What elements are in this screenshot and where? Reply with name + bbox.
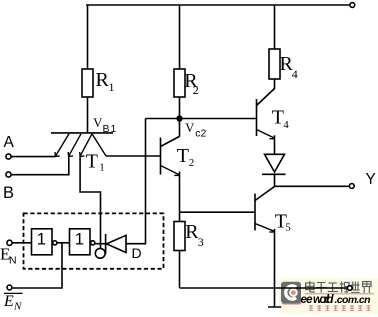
wire Vc2 down to diode anode — [127, 119, 146, 244]
label R4 — [280, 53, 298, 81]
node Vc2 dot — [177, 116, 182, 121]
watermark title underline — [305, 293, 374, 295]
diode D2 (level shift) — [265, 154, 285, 172]
transistor T4 collector — [257, 89, 275, 106]
resistor R4 — [269, 49, 280, 79]
svg-text:3: 3 — [198, 235, 204, 249]
wire gate2 to diode D cathode — [95, 243, 105, 245]
input terminal EN — [7, 240, 12, 245]
ground symbol — [268, 288, 281, 307]
wire VCC rail — [86, 4, 350, 6]
label gate1 1 — [37, 230, 46, 249]
wire input B — [11, 156, 69, 175]
label D — [132, 245, 142, 261]
svg-text:4: 4 — [292, 67, 298, 81]
label T1 — [86, 150, 105, 173]
transistor T1 multi-emitter: base bar — [51, 132, 113, 134]
wire ground rail — [180, 287, 348, 289]
resistor R3 — [174, 222, 185, 251]
svg-text:A: A — [4, 134, 15, 151]
svg-text:1: 1 — [109, 80, 115, 94]
transistor T4 emitter — [257, 130, 275, 138]
wire output Y — [275, 185, 350, 187]
transistor T5 base bar — [254, 194, 256, 231]
watermark red slogan (simulated) — [309, 305, 370, 311]
svg-text:Y: Y — [366, 171, 376, 188]
resistor R2 — [174, 69, 185, 97]
svg-text:T: T — [86, 150, 98, 172]
node circle P — [95, 248, 105, 258]
input terminal EN-bar — [7, 285, 12, 290]
label gate2 1 — [75, 230, 84, 249]
wire rail to R2 — [179, 5, 181, 69]
wire T5 emitter to ground — [274, 229, 276, 288]
label A — [4, 134, 15, 151]
transistor T5 emitter — [255, 224, 274, 232]
wire R1 to T1 base — [87, 97, 89, 132]
wire EN to gate1 — [12, 242, 31, 244]
label B — [3, 184, 14, 202]
label R1 — [96, 69, 115, 94]
wire Vc2 horizontal to T4 base — [146, 118, 257, 120]
dashed enable box — [24, 213, 164, 268]
label VB1 — [93, 116, 117, 135]
transistor T4 base bar — [256, 99, 258, 136]
svg-text:2: 2 — [193, 83, 199, 97]
svg-text:N: N — [9, 255, 17, 267]
terminal VCC — [350, 3, 355, 8]
transistor T2 emitter — [161, 166, 180, 175]
wire rail to R4 — [274, 5, 276, 49]
wire rail to R1 — [87, 5, 89, 69]
wire T2 collector to node Vc2 — [179, 119, 181, 137]
svg-text:D: D — [132, 245, 142, 261]
wire gate1 to gate2 — [57, 242, 70, 244]
terminal Y — [349, 184, 354, 189]
diode D — [107, 235, 127, 252]
svg-text:T: T — [272, 106, 284, 128]
svg-text:world: world — [313, 294, 334, 306]
label EN — [0, 245, 17, 267]
label T5 — [275, 210, 292, 233]
svg-text:.com.cn: .com.cn — [335, 294, 371, 306]
label T2 — [177, 145, 195, 169]
diode D2 cathode bar — [262, 173, 286, 175]
svg-text:B1: B1 — [103, 123, 118, 135]
transistor T2 base bar — [160, 138, 162, 175]
wire T1 collector to T2 base — [106, 155, 161, 157]
watermark eeworld.com.cn — [301, 294, 371, 306]
transistor T1 emitter 3 — [80, 134, 92, 156]
svg-text:1: 1 — [99, 162, 105, 174]
resistor R1 — [82, 69, 93, 97]
transistor T1 emitter 1 — [55, 134, 69, 156]
svg-text:c2: c2 — [195, 128, 206, 140]
buffer gate 2 — [70, 229, 91, 255]
wire diode to output node — [274, 174, 276, 186]
label vc2 — [185, 121, 206, 139]
gate1 output bubble — [53, 241, 57, 245]
transistor T1 emitter 2 — [69, 134, 81, 156]
label T4 — [272, 106, 290, 131]
wire input A — [11, 156, 55, 158]
label R2 — [184, 70, 199, 97]
input terminal B — [6, 172, 11, 177]
diode D cathode bar — [105, 234, 107, 254]
svg-text:N: N — [13, 301, 22, 313]
svg-text:1: 1 — [75, 230, 84, 249]
svg-text:V: V — [93, 116, 102, 130]
wire EN-bar to gates junction — [12, 243, 62, 288]
svg-text:4: 4 — [283, 119, 289, 131]
wire R2 to node Vc2 — [179, 97, 181, 119]
wire T1 emitter3 to enable node — [80, 156, 100, 248]
transistor T2 collector — [161, 137, 180, 147]
buffer gate 1 — [32, 229, 53, 255]
wire R3 to ground rail — [179, 251, 181, 289]
label Y — [366, 171, 376, 188]
input terminal A — [6, 154, 11, 159]
wire to T5 base — [180, 211, 256, 213]
label EN-bar — [3, 293, 22, 313]
transistor T5 collector — [255, 187, 275, 201]
svg-text:E: E — [3, 293, 14, 310]
transistor T1 collector — [92, 134, 106, 156]
terminal ground rail right — [348, 286, 353, 291]
svg-text:R: R — [96, 69, 110, 91]
gate2 output bubble — [91, 241, 95, 245]
svg-text:T: T — [177, 145, 189, 167]
svg-text:B: B — [3, 184, 14, 202]
svg-text:5: 5 — [285, 222, 291, 234]
svg-text:2: 2 — [189, 157, 195, 169]
wire R4 to T4 collector — [274, 79, 276, 89]
wire T4 emitter to diode — [274, 135, 276, 154]
watermark logo — [281, 282, 301, 305]
svg-text:V: V — [185, 121, 194, 135]
svg-text:1: 1 — [37, 230, 46, 249]
label R3 — [185, 221, 204, 249]
watermark background — [279, 278, 378, 313]
svg-text:ee: ee — [301, 294, 314, 306]
watermark title 电子工程世界 (simulated) — [306, 281, 371, 293]
wire T2 emitter down to R3 — [179, 172, 181, 222]
